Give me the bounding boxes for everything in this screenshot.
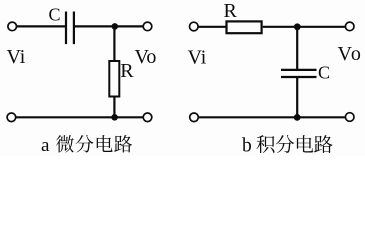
caption b (right): 分 xyxy=(276,135,294,153)
terminal Vo- (right circuit, bottom-right) xyxy=(345,113,354,122)
svg-text:b: b xyxy=(242,136,252,157)
capacitor C (top plate, right circuit) xyxy=(281,69,317,71)
terminal Vo- (left circuit, bottom-right) xyxy=(143,113,152,122)
wire: right-circuit left terminal to resistor R xyxy=(199,26,227,28)
svg-text:a: a xyxy=(41,135,50,156)
wire: resistor R to node, to top-right terminal xyxy=(263,26,346,28)
terminal Vi+ (left circuit, top-left) xyxy=(8,22,17,31)
node: junction of C and R branch xyxy=(112,23,119,30)
svg-text:Vo: Vo xyxy=(338,43,363,65)
terminal Vo+ (left circuit, top-right) xyxy=(143,22,152,31)
svg-text:Vi: Vi xyxy=(7,46,26,68)
caption b (right): 路 xyxy=(314,135,332,153)
wire: capacitor C down to bottom node xyxy=(296,77,298,117)
wire: left terminal to capacitor C xyxy=(17,25,66,27)
svg-text:R: R xyxy=(120,60,134,82)
wire: capacitor C to node, to top-right terminal xyxy=(75,25,143,27)
node: bottom junction of C branch xyxy=(294,114,301,121)
svg-text:C: C xyxy=(49,5,61,25)
node: junction of R and C branch xyxy=(294,23,301,30)
caption a (left): 分 xyxy=(75,135,93,153)
wire: resistor R down to bottom node xyxy=(113,97,115,118)
wire: bottom rail of left circuit xyxy=(16,116,143,118)
capacitor C (right plate) xyxy=(73,12,75,45)
terminal Vo+ (right circuit, top-right) xyxy=(345,22,354,31)
terminal Vi- (right circuit, bottom-left) xyxy=(190,113,199,122)
caption a (left): 路 xyxy=(114,135,132,152)
caption a (left): 电 xyxy=(97,135,113,152)
resistor R (right circuit, horizontal body) xyxy=(227,21,262,33)
wire: bottom rail of right circuit xyxy=(199,116,346,118)
caption b (right): 电 xyxy=(297,135,313,152)
svg-text:Vi: Vi xyxy=(188,47,207,69)
svg-text:C: C xyxy=(318,62,330,82)
node: bottom junction of R branch xyxy=(111,114,118,121)
capacitor C (left plate) xyxy=(65,12,67,45)
wire: node down to resistor R xyxy=(113,26,115,61)
wire: node down to capacitor C xyxy=(296,27,298,70)
terminal Vi+ (right circuit, top-left) xyxy=(190,22,199,31)
capacitor C (bottom plate, right circuit) xyxy=(281,76,317,78)
resistor R (left circuit, vertical body) xyxy=(109,61,119,97)
terminal Vi- (left circuit, bottom-left) xyxy=(7,113,16,122)
caption b (right): 积 xyxy=(257,135,275,153)
caption a (left): 微 xyxy=(56,135,74,152)
svg-text:Vo: Vo xyxy=(135,46,157,68)
svg-text:R: R xyxy=(224,0,238,22)
